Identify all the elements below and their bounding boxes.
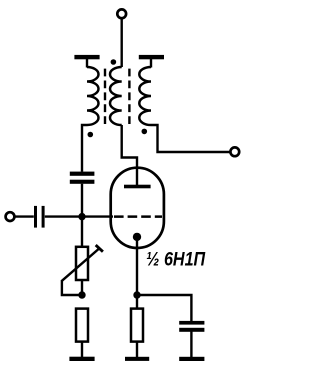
svg-text:½ 6Н1П: ½ 6Н1П — [146, 248, 205, 270]
